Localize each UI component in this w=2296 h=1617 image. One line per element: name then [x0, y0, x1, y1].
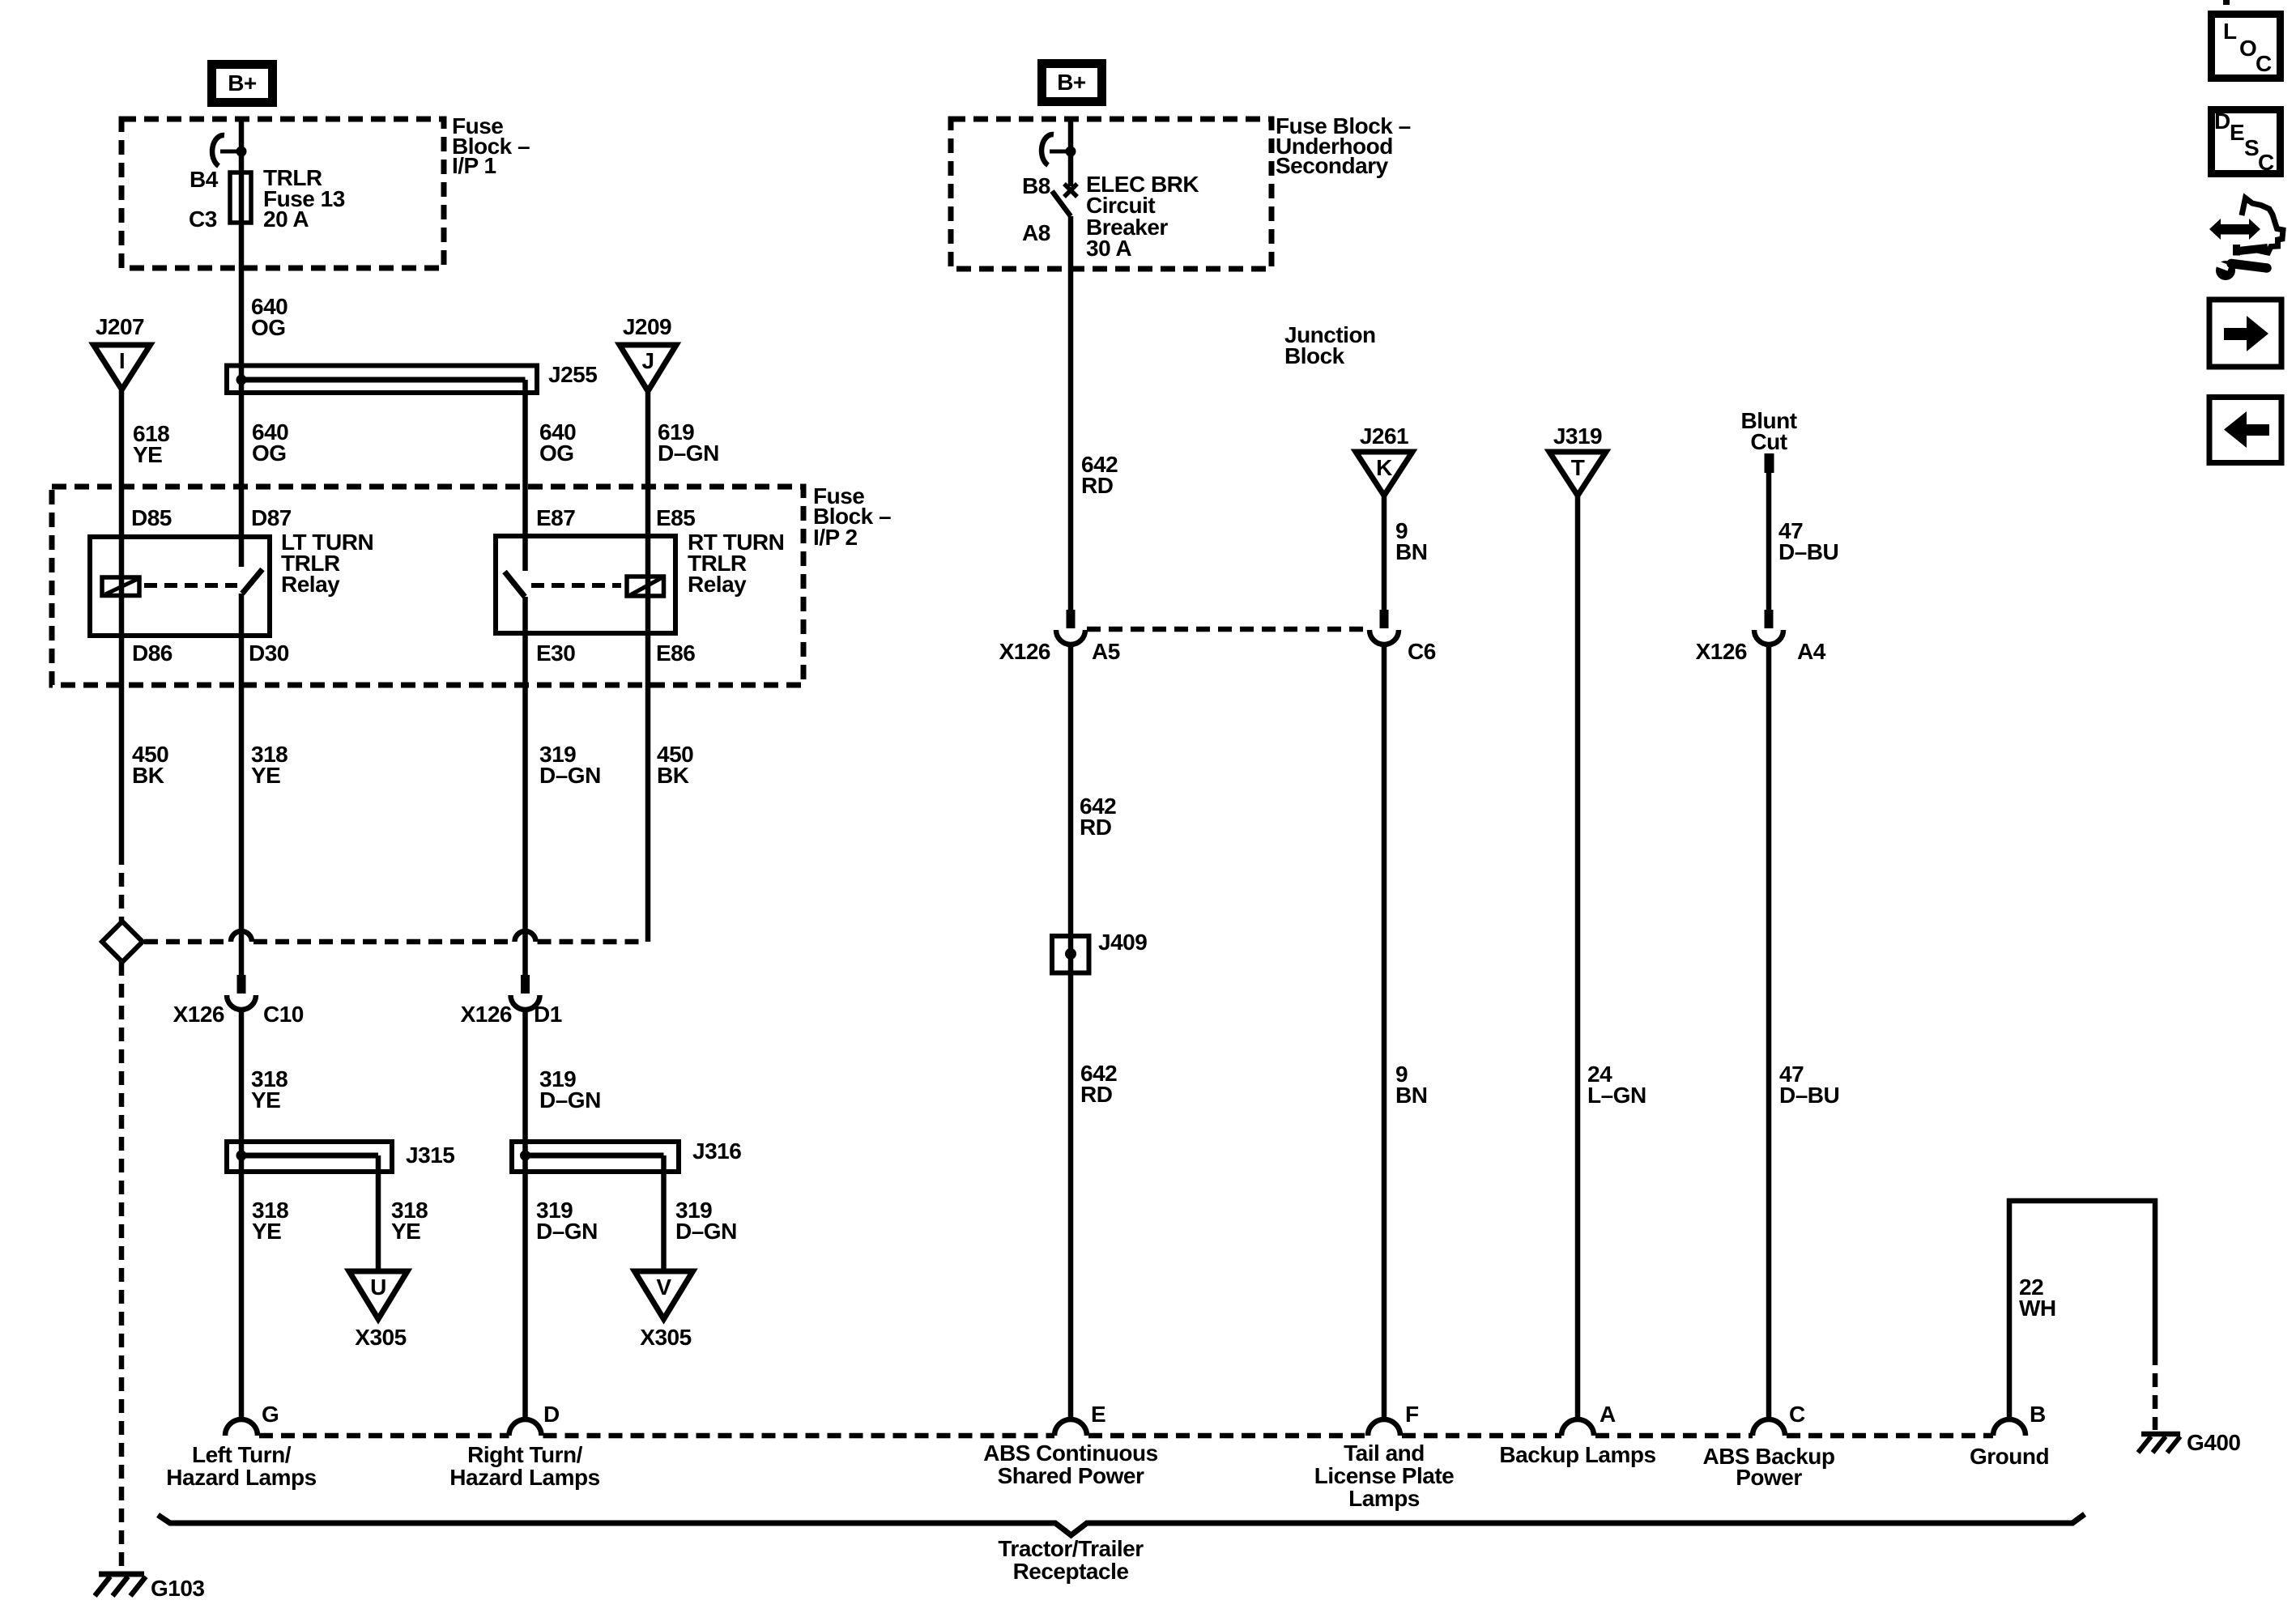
- svg-text:D–BU: D–BU: [1778, 539, 1838, 564]
- svg-text:Relay: Relay: [688, 572, 747, 597]
- diamond splice symbol: [102, 921, 143, 962]
- ground G400: [2138, 1434, 2180, 1453]
- svg-text:L: L: [2223, 19, 2237, 44]
- relay LT TURN TRLR: [90, 537, 270, 636]
- svg-text:A8: A8: [1022, 220, 1050, 245]
- fuse block I/P 2 dashed box: [52, 487, 803, 685]
- svg-text:OG: OG: [252, 440, 287, 466]
- svg-text:B8: B8: [1022, 173, 1050, 198]
- relay LT label: [281, 530, 373, 597]
- svg-text:Cut: Cut: [1750, 429, 1787, 454]
- svg-text:A: A: [1600, 1402, 1616, 1427]
- svg-text:30 A: 30 A: [1086, 236, 1131, 261]
- svg-text:X305: X305: [355, 1325, 406, 1350]
- svg-text:Left Turn/: Left Turn/: [192, 1442, 292, 1467]
- icon LOC box: [2212, 15, 2281, 79]
- svg-text:Lamps: Lamps: [1348, 1486, 1420, 1511]
- svg-text:License Plate: License Plate: [1314, 1463, 1454, 1488]
- wire label 318 YE: [251, 742, 288, 788]
- wire 640 OG from J255 to relay E87: [522, 380, 528, 571]
- wire 24 L-GN from J319 to terminal A: [1575, 496, 1581, 1419]
- svg-text:E30: E30: [536, 640, 575, 666]
- wire label 450 BK left: [132, 742, 168, 788]
- svg-text:D–GN: D–GN: [536, 1219, 598, 1244]
- connector J261: [1356, 423, 1412, 496]
- icon DESC box: [2212, 109, 2281, 175]
- wire 318 YE to J315: [239, 1009, 245, 1422]
- B+ terminal (left): [212, 65, 273, 103]
- junction block label: [1284, 322, 1376, 368]
- svg-text:B4: B4: [190, 167, 219, 192]
- label right turn hazard lamps: [449, 1442, 599, 1490]
- svg-text:WH: WH: [2019, 1296, 2056, 1321]
- svg-text:D1: D1: [534, 1002, 562, 1027]
- svg-text:D–GN: D–GN: [539, 1087, 601, 1113]
- svg-text:20 A: 20 A: [263, 206, 309, 232]
- svg-text:J209: J209: [623, 314, 671, 339]
- circuit breaker ELEC BRK 30 A: [1052, 184, 1077, 216]
- label abs backup power: [1702, 1444, 1834, 1490]
- wire 9 BN from C6 to terminal F: [1382, 644, 1387, 1419]
- wire label 47 D-BU lower: [1779, 1062, 1839, 1108]
- svg-text:OG: OG: [539, 440, 574, 466]
- svg-text:ABS Continuous: ABS Continuous: [983, 1440, 1157, 1466]
- svg-text:X305: X305: [640, 1325, 691, 1350]
- svg-text:E87: E87: [536, 505, 575, 530]
- connector hook at fuse block input: [212, 135, 246, 166]
- fuse block underhood dashed box: [951, 119, 1272, 269]
- svg-text:YE: YE: [251, 763, 280, 788]
- svg-text:E85: E85: [656, 505, 695, 530]
- svg-text:J255: J255: [548, 362, 597, 387]
- svg-text:G400: G400: [2187, 1430, 2241, 1455]
- svg-text:OG: OG: [251, 315, 286, 340]
- svg-text:S: S: [2244, 135, 2259, 160]
- wire label 47 D-BU upper: [1778, 518, 1838, 564]
- svg-text:YE: YE: [133, 442, 162, 467]
- wire 618 YE from J207 to relay D85: [119, 389, 125, 851]
- svg-text:E: E: [2230, 120, 2244, 145]
- dashed connector line A5 to C6: [1087, 627, 1368, 632]
- svg-text:Backup Lamps: Backup Lamps: [1499, 1442, 1655, 1467]
- svg-text:RD: RD: [1081, 473, 1114, 498]
- icon arrow left box: [2209, 398, 2281, 463]
- receptacle bracket line: [158, 1514, 2085, 1535]
- svg-text:D: D: [543, 1402, 560, 1427]
- wire label 450 BK right: [657, 742, 693, 788]
- wire 318 YE from relay D30 down: [239, 594, 245, 975]
- B+ terminal (right): [1042, 64, 1102, 102]
- svg-text:Tractor/Trailer: Tractor/Trailer: [998, 1536, 1144, 1561]
- svg-text:F: F: [1405, 1402, 1419, 1427]
- svg-text:C6: C6: [1408, 639, 1436, 664]
- wire J316 branch to X305 V: [661, 1155, 667, 1271]
- splice pack J315: [227, 1142, 392, 1172]
- svg-text:BN: BN: [1395, 539, 1427, 564]
- svg-text:D–GN: D–GN: [539, 763, 601, 788]
- wire label 319 D-GN mid: [539, 1066, 601, 1113]
- svg-text:D30: D30: [249, 640, 289, 666]
- svg-text:Ground: Ground: [1970, 1444, 2049, 1469]
- label abs continuous shared power: [983, 1440, 1157, 1488]
- fuse block I/P 1 dashed box: [121, 119, 444, 268]
- svg-text:X126: X126: [461, 1002, 512, 1027]
- wire label 319 D-GN: [539, 742, 601, 788]
- wire label 318 YE lower left: [252, 1198, 288, 1244]
- svg-text:X126: X126: [173, 1002, 224, 1027]
- svg-text:D86: D86: [132, 640, 173, 666]
- svg-text:J261: J261: [1360, 423, 1408, 449]
- wire 9 BN from J261 to C6: [1382, 496, 1387, 610]
- svg-text:L–GN: L–GN: [1587, 1083, 1646, 1108]
- svg-text:D: D: [2214, 109, 2230, 134]
- wire label 318 YE mid: [251, 1066, 288, 1113]
- svg-text:Secondary: Secondary: [1276, 153, 1389, 178]
- breaker label: [1086, 172, 1199, 261]
- blunt cut end: [1765, 453, 1774, 473]
- label tail and license plate lamps: [1314, 1440, 1454, 1511]
- label left turn hazard lamps: [166, 1442, 316, 1490]
- svg-text:B+: B+: [1057, 70, 1086, 95]
- fuse block I/P 2 name label: [813, 483, 891, 550]
- wire 22 WH ground loop: [2009, 1201, 2155, 1419]
- connector J207: [94, 314, 151, 389]
- splice J409: [1052, 936, 1089, 973]
- svg-text:RD: RD: [1080, 1082, 1113, 1107]
- svg-text:E: E: [1091, 1402, 1105, 1427]
- connector hook at underhood block input: [1042, 134, 1076, 165]
- edge mark: [2223, 0, 2230, 5]
- svg-text:D–BU: D–BU: [1779, 1083, 1839, 1108]
- svg-text:G: G: [262, 1402, 279, 1427]
- wire 642 RD from A5 to J409: [1068, 644, 1074, 1419]
- wire label 619 D-GN: [658, 419, 719, 466]
- svg-text:YE: YE: [252, 1219, 281, 1244]
- connector X126 C10: [173, 975, 304, 1027]
- svg-text:J409: J409: [1098, 930, 1147, 955]
- svg-text:BK: BK: [657, 763, 689, 788]
- svg-text:X126: X126: [1696, 639, 1747, 664]
- wire 642 RD from breaker to X126 A5: [1068, 216, 1074, 610]
- svg-text:C10: C10: [263, 1002, 304, 1027]
- svg-text:RD: RD: [1080, 815, 1112, 840]
- svg-text:U: U: [370, 1274, 386, 1300]
- wire 47 D-BU from blunt cut to X126 A4: [1766, 473, 1772, 610]
- fuse block I/P 1 name label: [452, 113, 530, 178]
- wire from B+ right to breaker: [1068, 117, 1074, 186]
- wire label 318 YE lower right: [391, 1198, 428, 1244]
- wire label 618 YE: [133, 421, 169, 467]
- tractor/trailer receptacle dashed line: [225, 1419, 2026, 1436]
- wire 640 OG from B+ through fuse to J255 and relay D87: [239, 117, 245, 567]
- svg-text:J: J: [641, 348, 654, 373]
- svg-text:YE: YE: [251, 1087, 280, 1113]
- svg-text:I/P 2: I/P 2: [813, 525, 858, 550]
- svg-text:J319: J319: [1553, 423, 1602, 449]
- wire label 9 BN lower: [1395, 1062, 1427, 1108]
- wire label 22 WH: [2019, 1274, 2056, 1321]
- connector X305 U: [349, 1271, 407, 1350]
- wire label 642 RD upper: [1081, 452, 1118, 498]
- dashed ground wire to G400: [2153, 1351, 2158, 1430]
- relay RT label: [688, 530, 784, 597]
- svg-text:E86: E86: [656, 640, 695, 666]
- wire 319 D-GN from relay E30 down: [522, 597, 528, 975]
- connector X126 D1: [461, 975, 562, 1027]
- wire label 642 RD lower: [1080, 1061, 1117, 1107]
- icon arrow right box: [2209, 300, 2281, 367]
- icon vehicle with wrench: [2209, 198, 2283, 281]
- svg-text:YE: YE: [391, 1219, 420, 1244]
- svg-text:C: C: [2256, 51, 2272, 76]
- wire label 642 RD middle: [1080, 794, 1116, 840]
- connector X305 V: [635, 1271, 693, 1350]
- wire label 640 OG (second): [252, 419, 288, 466]
- svg-text:Power: Power: [1736, 1465, 1802, 1490]
- ground wire dashed to G103: [119, 962, 125, 1569]
- wire label 319 D-GN lower right: [675, 1198, 737, 1244]
- svg-text:O: O: [2239, 36, 2256, 61]
- svg-text:Shared Power: Shared Power: [998, 1463, 1144, 1488]
- svg-text:B: B: [2030, 1402, 2046, 1427]
- svg-text:Relay: Relay: [281, 572, 340, 597]
- svg-text:Block: Block: [1284, 343, 1345, 368]
- wire 319 D-GN to J316: [522, 1009, 528, 1422]
- svg-text:J315: J315: [406, 1143, 454, 1168]
- wire label 9 BN upper: [1395, 518, 1427, 564]
- svg-text:X126: X126: [999, 639, 1050, 664]
- fuse TRLR Fuse 13 20 A: [230, 172, 251, 223]
- svg-text:D–GN: D–GN: [675, 1219, 737, 1244]
- connector J209: [620, 314, 676, 391]
- svg-text:Right Turn/: Right Turn/: [467, 1442, 582, 1467]
- wire 619 D-GN from J209 through relay coil to dashed junction: [645, 391, 651, 942]
- splice pack J255: [227, 366, 537, 394]
- svg-text:I/P 1: I/P 1: [452, 153, 496, 178]
- ground G103: [95, 1574, 146, 1596]
- svg-text:Hazard Lamps: Hazard Lamps: [449, 1465, 599, 1490]
- svg-text:J207: J207: [96, 314, 144, 339]
- svg-text:T: T: [1571, 455, 1585, 480]
- blunt cut label: [1740, 408, 1796, 454]
- wire label 319 D-GN lower left: [536, 1198, 598, 1244]
- svg-text:G103: G103: [151, 1576, 205, 1601]
- svg-text:A4: A4: [1797, 639, 1826, 664]
- fuse value label: [263, 165, 345, 232]
- connector X126 A5: [999, 610, 1120, 664]
- svg-text:D–GN: D–GN: [658, 440, 719, 466]
- svg-text:V: V: [656, 1274, 671, 1300]
- wire J315 branch to X305 U: [376, 1155, 381, 1271]
- svg-text:C3: C3: [189, 206, 217, 232]
- connector C6: [1370, 610, 1436, 664]
- label tractor/trailer receptacle: [998, 1536, 1144, 1584]
- svg-text:J316: J316: [692, 1138, 741, 1164]
- splice pack J316: [512, 1142, 679, 1172]
- wire label 24 L-GN: [1587, 1062, 1646, 1108]
- svg-text:Receptacle: Receptacle: [1013, 1559, 1129, 1584]
- svg-text:C: C: [2258, 150, 2274, 175]
- connector J319: [1549, 423, 1606, 496]
- svg-text:A5: A5: [1092, 639, 1120, 664]
- svg-text:B+: B+: [228, 70, 257, 96]
- svg-text:D87: D87: [251, 505, 292, 530]
- wire label 640 OG upper: [251, 294, 288, 340]
- connector X126 A4: [1696, 610, 1826, 664]
- fuse block underhood name label: [1276, 113, 1411, 178]
- svg-text:I: I: [119, 348, 125, 373]
- svg-text:BN: BN: [1395, 1083, 1427, 1108]
- dashed 450 BK harness segment: [119, 851, 125, 923]
- wire label 640 OG (third): [539, 419, 576, 466]
- wire 47 D-BU from A4 to terminal C: [1766, 644, 1772, 1419]
- svg-text:Tail and: Tail and: [1344, 1440, 1425, 1466]
- svg-text:BK: BK: [132, 763, 164, 788]
- relay RT TURN TRLR: [496, 536, 675, 633]
- svg-text:Hazard Lamps: Hazard Lamps: [166, 1465, 316, 1490]
- svg-text:C: C: [1789, 1402, 1805, 1427]
- dashed harness line to E86 wire: [144, 931, 646, 942]
- svg-text:D85: D85: [131, 505, 172, 530]
- svg-text:K: K: [1376, 455, 1392, 480]
